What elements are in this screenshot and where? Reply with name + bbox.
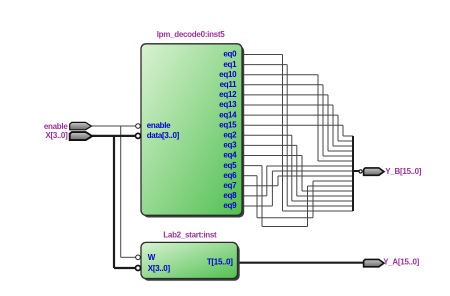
port circle W (U2)	[136, 255, 141, 260]
svg-text:eq2: eq2	[223, 131, 237, 140]
wire eq6	[313, 180, 353, 182]
wire eq1	[242, 64, 287, 66]
wire eq10	[242, 74, 318, 76]
wire eq5	[308, 185, 354, 187]
svg-text:eq9: eq9	[223, 201, 237, 210]
wire eq11	[323, 155, 353, 157]
input pin enable	[70, 122, 92, 129]
wire eq13	[332, 105, 334, 146]
wire eq15	[342, 125, 344, 136]
output pin Y_B	[364, 168, 384, 175]
block U1 lpm_decode0:inst5	[141, 44, 242, 216]
wire eq2	[292, 200, 353, 202]
wire eq4	[302, 190, 353, 192]
wire eq5	[307, 186, 309, 227]
block U1 lpm_decode0:inst5 shadow	[143, 46, 244, 218]
wire enable branch to W	[120, 126, 122, 257]
wire eq0	[282, 55, 284, 212]
svg-text:Y_A[15..0]: Y_A[15..0]	[383, 258, 419, 267]
svg-text:X[3..0]: X[3..0]	[45, 131, 68, 140]
svg-text:eq12: eq12	[219, 90, 237, 99]
wire eq15	[343, 135, 353, 137]
wire eq3	[242, 144, 297, 146]
wire eq7	[278, 175, 353, 177]
wire eq4	[301, 156, 303, 192]
wire eq6	[257, 217, 313, 219]
wire X branch to Lab2	[113, 136, 115, 268]
svg-text:eq7: eq7	[223, 181, 237, 190]
svg-text:enable: enable	[147, 121, 171, 130]
wire Y_B bus vertical	[352, 136, 354, 211]
wire eq3	[297, 195, 353, 197]
wire eq14	[242, 114, 338, 116]
wire eq15	[242, 124, 343, 126]
block U2 Lab2_start:inst	[141, 242, 238, 278]
wire eq5	[262, 226, 308, 228]
wire eq4	[242, 155, 302, 157]
wire eq3	[296, 145, 298, 196]
svg-text:eq14: eq14	[219, 110, 237, 119]
svg-text:enable: enable	[44, 122, 68, 131]
svg-text:eq13: eq13	[219, 100, 237, 109]
wire eq8	[267, 165, 353, 167]
wire enable input net	[92, 125, 136, 127]
wire Y_A output bus	[238, 262, 365, 264]
wire eq11	[322, 85, 324, 156]
svg-text:Lab2_start:inst: Lab2_start:inst	[163, 231, 217, 240]
port circle enable (U1)	[136, 124, 141, 129]
svg-text:X[3..0]: X[3..0]	[148, 264, 171, 273]
input pin X[3..0]	[70, 132, 93, 140]
wire eq14	[338, 140, 353, 142]
wire eq9	[272, 170, 353, 172]
svg-text:eq11: eq11	[220, 80, 238, 89]
svg-text:data[3..0]: data[3..0]	[147, 131, 180, 140]
svg-text:W: W	[148, 253, 156, 262]
wire eq6	[312, 181, 314, 218]
wire eq12	[327, 95, 329, 151]
wire eq7	[277, 176, 279, 186]
wire eq8	[266, 166, 268, 196]
wire eq9	[271, 171, 273, 206]
wire eq0	[283, 210, 354, 212]
wire eq11	[242, 84, 323, 86]
wire Y_B pin stub	[353, 170, 359, 172]
wire eq14	[337, 115, 339, 141]
wire eq13	[242, 104, 333, 106]
wire eq5	[242, 165, 262, 167]
svg-text:eq5: eq5	[223, 161, 237, 170]
wire eq12	[242, 94, 328, 96]
svg-text:eq4: eq4	[223, 151, 237, 160]
wire eq6	[256, 176, 258, 218]
wire eq10	[317, 75, 319, 161]
output pin Y_A	[364, 259, 384, 266]
svg-text:eq3: eq3	[223, 141, 237, 150]
svg-text:eq6: eq6	[223, 171, 237, 180]
svg-text:lpm_decode0:inst5: lpm_decode0:inst5	[157, 30, 226, 39]
wire eq6	[242, 175, 257, 177]
wire eq13	[333, 145, 353, 147]
wire eq1	[287, 205, 353, 207]
wire X[3..0] input bus	[92, 135, 135, 137]
wire eq5	[261, 166, 263, 227]
svg-text:eq1: eq1	[223, 60, 237, 69]
port circle data[3..0] (U1)	[136, 133, 141, 138]
wire eq0	[242, 54, 283, 56]
svg-text:Y_B[15..0]: Y_B[15..0]	[385, 167, 421, 176]
wire eq7	[242, 185, 278, 187]
block U2 Lab2_start:inst shadow	[143, 245, 240, 281]
svg-text:eq10: eq10	[219, 70, 237, 79]
wire eq8	[242, 195, 267, 197]
wire eq12	[328, 150, 353, 152]
wire eq1	[286, 65, 288, 206]
svg-text:T[15..0]: T[15..0]	[207, 257, 233, 266]
svg-text:eq8: eq8	[223, 191, 237, 200]
svg-text:eq15: eq15	[219, 120, 237, 129]
junction circle Y_B	[359, 170, 362, 173]
wire eq2	[242, 134, 292, 136]
svg-text:eq0: eq0	[223, 50, 237, 59]
wire eq10	[318, 160, 353, 162]
port circle X[3..0] (U2)	[136, 266, 141, 271]
wire eq9	[242, 205, 272, 207]
wire eq2	[291, 135, 293, 201]
